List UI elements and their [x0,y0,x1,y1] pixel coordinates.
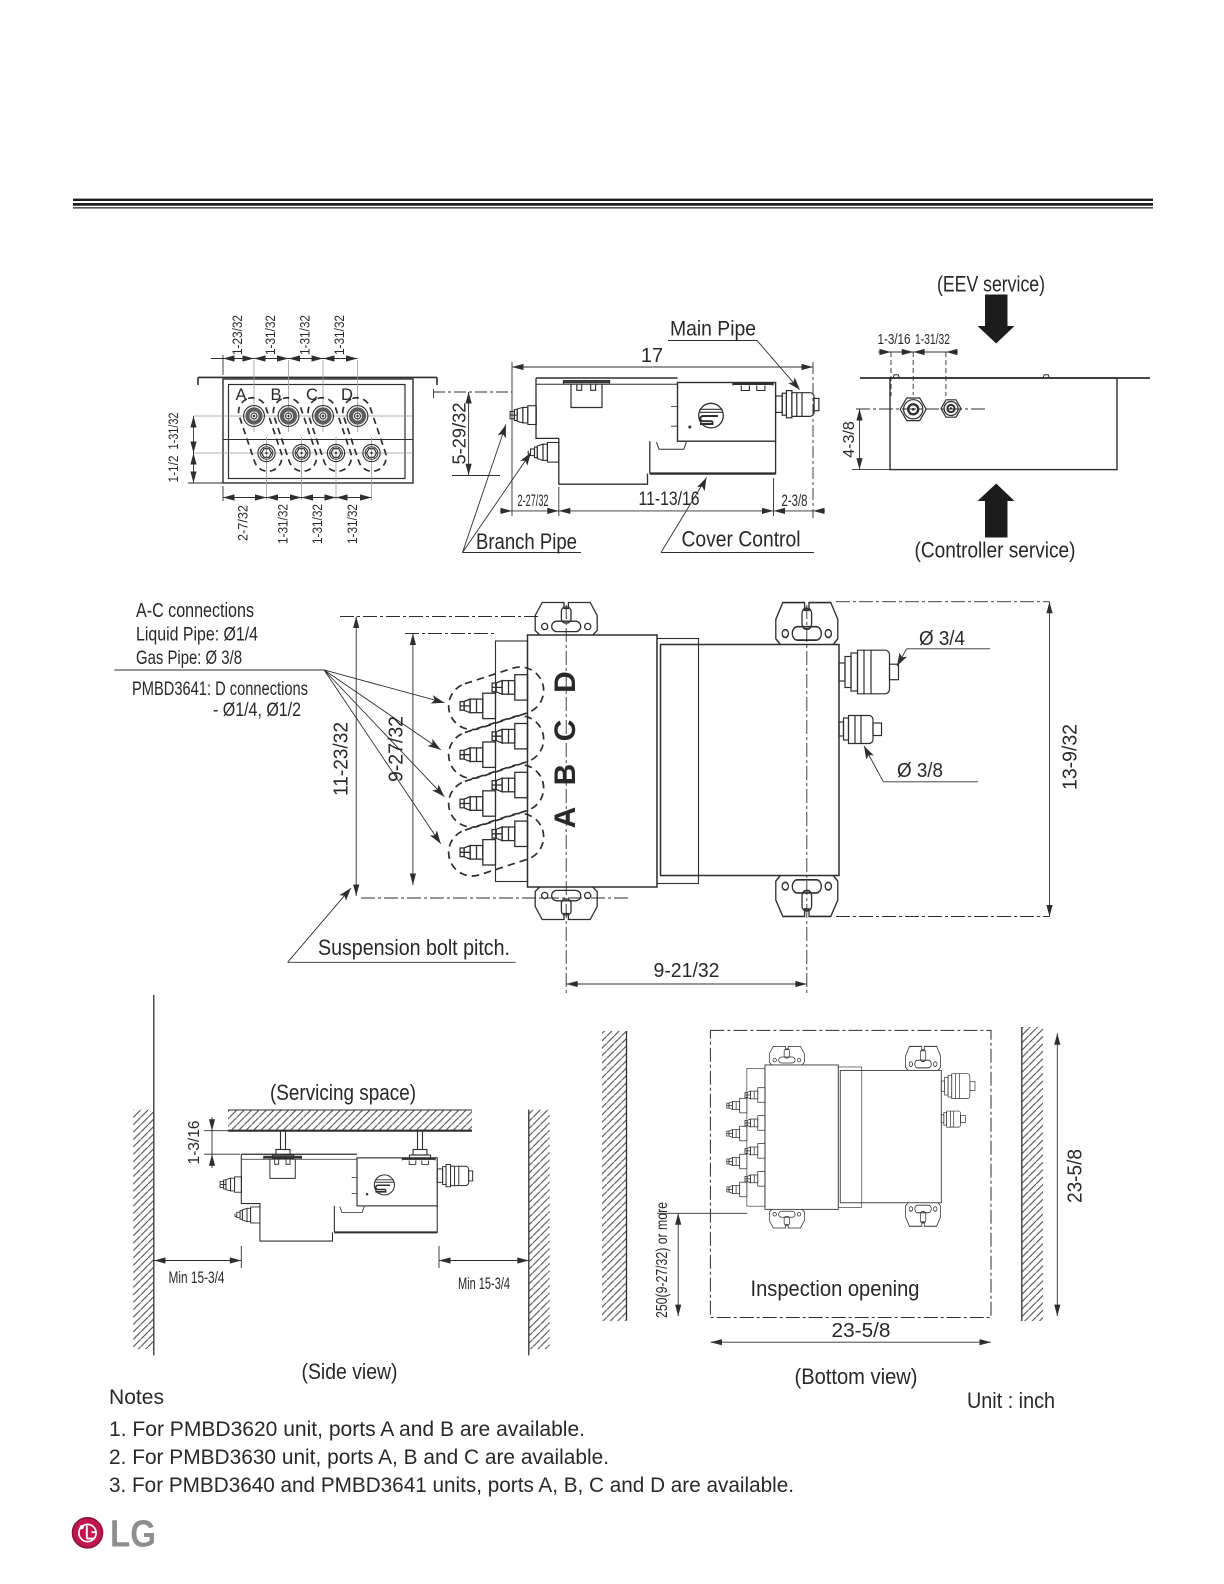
svg-text:Min 15-3/4: Min 15-3/4 [169,1269,225,1287]
svg-text:1-3/16: 1-3/16 [186,1121,203,1165]
svg-text:4-3/8: 4-3/8 [841,421,858,458]
svg-text:(EEV service): (EEV service) [937,272,1045,297]
svg-text:9-27/32: 9-27/32 [385,716,407,782]
svg-text:Min 15-3/4: Min 15-3/4 [458,1275,510,1293]
svg-text:11-13/16: 11-13/16 [639,489,700,510]
svg-text:(Side view): (Side view) [302,1359,398,1384]
svg-text:Main Pipe: Main Pipe [670,317,756,341]
svg-text:Inspection opening: Inspection opening [751,1276,920,1301]
svg-text:1-31/32: 1-31/32 [298,315,313,355]
svg-text:250(9-27/32) or more: 250(9-27/32) or more [654,1202,671,1318]
svg-text:Suspension bolt pitch.: Suspension bolt pitch. [318,935,510,960]
svg-text:1-31/32: 1-31/32 [166,413,181,450]
svg-text:B: B [549,764,582,786]
svg-text:D: D [341,386,353,404]
svg-text:1-31/32: 1-31/32 [332,315,347,355]
svg-text:Unit : inch: Unit : inch [967,1388,1055,1413]
svg-text:23-5/8: 23-5/8 [832,1320,891,1342]
svg-text:Gas Pipe: Ø 3/8: Gas Pipe: Ø 3/8 [136,648,242,669]
svg-text:17: 17 [641,345,663,367]
svg-text:(Bottom view): (Bottom view) [795,1364,918,1389]
svg-text:1-31/32: 1-31/32 [345,504,360,544]
svg-text:1-31/32: 1-31/32 [263,315,278,355]
svg-text:Ø 3/8: Ø 3/8 [897,760,943,782]
svg-text:A: A [236,386,247,404]
svg-text:Ø 3/4: Ø 3/4 [919,628,965,650]
svg-text:1-31/32: 1-31/32 [310,504,325,544]
svg-text:Notes: Notes [109,1385,164,1409]
svg-text:2. For PMBD3630 unit, ports A,: 2. For PMBD3630 unit, ports A, B and C a… [109,1445,609,1469]
svg-text:1-23/32: 1-23/32 [230,315,245,355]
svg-text:Liquid Pipe: Ø1/4: Liquid Pipe: Ø1/4 [136,625,258,646]
svg-text:1-31/32: 1-31/32 [915,332,950,348]
svg-text:A: A [549,807,582,829]
svg-text:13-9/32: 13-9/32 [1059,724,1081,790]
svg-text:C: C [549,720,582,742]
svg-text:B: B [271,386,282,404]
svg-text:A-C connections: A-C connections [136,600,254,622]
svg-text:9-21/32: 9-21/32 [654,960,720,982]
svg-text:1-1/2: 1-1/2 [166,456,181,483]
svg-text:LG: LG [110,1514,156,1556]
svg-text:23-5/8: 23-5/8 [1064,1149,1086,1203]
svg-text:PMBD3641: D connections: PMBD3641: D connections [132,679,308,700]
svg-text:- Ø1/4, Ø1/2: - Ø1/4, Ø1/2 [213,700,301,721]
svg-text:1. For PMBD3620 unit, ports A: 1. For PMBD3620 unit, ports A and B are … [109,1417,585,1441]
svg-text:2-3/8: 2-3/8 [782,491,808,510]
svg-text:(Controller service): (Controller service) [915,538,1076,563]
svg-text:D: D [549,671,582,693]
svg-text:Cover Control: Cover Control [682,527,801,552]
svg-text:3. For PMBD3640 and PMBD3641 u: 3. For PMBD3640 and PMBD3641 units, port… [109,1473,794,1497]
svg-text:2-27/32: 2-27/32 [518,491,549,510]
svg-text:11-23/32: 11-23/32 [330,722,352,796]
svg-text:Branch Pipe: Branch Pipe [476,529,577,554]
svg-text:C: C [306,386,318,404]
svg-text:1-31/32: 1-31/32 [276,504,291,544]
svg-text:2-7/32: 2-7/32 [236,505,251,541]
svg-text:(Servicing space): (Servicing space) [270,1080,416,1105]
svg-text:1-3/16: 1-3/16 [878,332,911,348]
svg-text:5-29/32: 5-29/32 [449,403,469,465]
